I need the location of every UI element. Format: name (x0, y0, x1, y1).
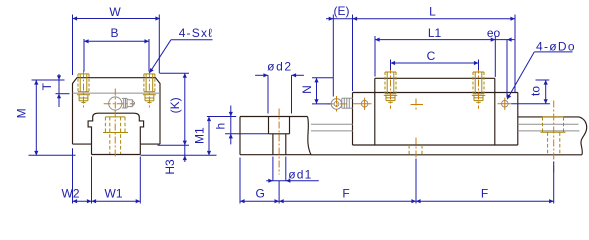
svg-text:H3: H3 (163, 159, 177, 175)
rail hole hidden middle (408, 145, 410, 155)
rail counterbore hole (268, 117, 270, 134)
left view: nipple centerlines (104, 103, 135, 105)
svg-text:to: to (529, 86, 543, 96)
svg-text:4-øDo: 4-øDo (536, 39, 576, 53)
grease nipple side view (331, 99, 342, 110)
nipple centerline (327, 103, 347, 105)
dimension M1 (208, 117, 210, 156)
rail top right portion (518, 116, 579, 118)
left view: grease nipple front (109, 97, 122, 110)
rail bottom edge (311, 154, 582, 156)
svg-text:4-Sxℓ: 4-Sxℓ (179, 26, 214, 40)
rail groove lines right segment (518, 123, 579, 125)
left view: tapped hole S left (77, 74, 79, 92)
rail piece left end (240, 116, 308, 118)
hole Do left (361, 100, 368, 107)
block bottom line (353, 144, 518, 146)
dimension H3 (184, 145, 186, 162)
bottom reference line (29, 154, 76, 156)
svg-text:G: G (256, 186, 265, 200)
left view: block outer outline (73, 78, 161, 144)
svg-text:T: T (40, 82, 54, 90)
block mounting screw left side view (385, 71, 396, 73)
dimension B (84, 40, 149, 42)
dimension W2 W1 (73, 200, 141, 202)
dimension od1 (266, 180, 319, 182)
svg-text:F: F (342, 186, 349, 200)
block body side view (374, 78, 376, 145)
dimension G F F (240, 200, 554, 202)
svg-text:W1: W1 (105, 186, 123, 200)
dimension L (353, 18, 516, 20)
svg-text:(K): (K) (168, 97, 182, 113)
svg-text:F: F (481, 186, 488, 200)
svg-text:h: h (214, 123, 228, 130)
dimension T (58, 74, 60, 107)
hole Do right (502, 100, 509, 107)
rail hole centerline right (553, 101, 555, 173)
rail hole centerline (278, 109, 280, 175)
svg-text:C: C (427, 49, 436, 63)
svg-text:M1: M1 (193, 127, 207, 144)
svg-text:B: B (110, 26, 118, 40)
left view: tapped hole S right (143, 74, 145, 92)
rail groove lines left segment (311, 123, 353, 125)
block cap top line (353, 92, 518, 94)
rail break line (308, 117, 312, 155)
block mounting screw right side view (473, 71, 484, 73)
svg-text:(E): (E) (334, 4, 350, 18)
svg-text:W2: W2 (62, 186, 80, 200)
svg-text:L: L (429, 5, 436, 19)
dimension h (230, 106, 232, 145)
svg-text:ød1: ød1 (288, 168, 312, 182)
dimension C (391, 62, 479, 64)
left view: rail visible lower part (91, 144, 93, 154)
dimension L1 (375, 39, 495, 41)
svg-text:M: M (14, 108, 28, 118)
dimension M (35, 80, 37, 156)
svg-text:eo: eo (487, 26, 501, 40)
dimension (K) (184, 73, 186, 145)
dimension W (73, 18, 161, 20)
dimension N (316, 78, 318, 104)
svg-text:L1: L1 (428, 26, 442, 40)
left view: rail hole hidden lines (104, 117, 106, 133)
svg-text:W: W (109, 5, 121, 19)
rail right break (579, 117, 587, 155)
end cap right (517, 93, 519, 146)
rail hole hidden right (542, 117, 544, 132)
svg-text:N: N (300, 85, 314, 94)
left view: rail centerline (114, 111, 116, 159)
end cap left (352, 93, 354, 146)
svg-text:ød2: ød2 (267, 59, 292, 73)
left view: block channel inner profile (88, 113, 144, 144)
dimension to (545, 80, 547, 104)
left view: end-plate boundary line (73, 92, 161, 94)
